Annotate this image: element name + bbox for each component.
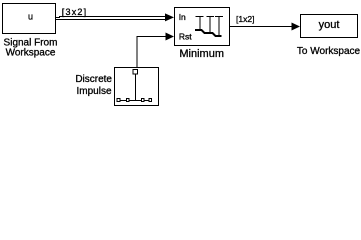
svg-text:Minimum: Minimum	[179, 48, 224, 60]
block To Workspace	[301, 15, 358, 38]
wire u to Minimum (double line, matrix signal)	[55, 17, 166, 20]
svg-text:u: u	[28, 12, 33, 22]
block Signal From Workspace	[3, 4, 56, 34]
block Minimum	[175, 8, 230, 46]
svg-text:yout: yout	[319, 19, 340, 31]
icon minimum staircase stems	[195, 16, 223, 36]
icon discrete impulse stem plot	[117, 70, 152, 102]
arrowhead into yout	[292, 23, 301, 31]
wire Minimum to yout	[230, 26, 292, 28]
svg-text:Impulse: Impulse	[76, 86, 111, 97]
label Signal From Workspace	[4, 38, 58, 59]
block Discrete Impulse	[115, 68, 159, 106]
label Discrete Impulse	[75, 74, 112, 97]
svg-text:[1x2]: [1x2]	[236, 14, 254, 24]
svg-text:To Workspace: To Workspace	[297, 46, 361, 57]
arrowhead into Rst port	[166, 33, 175, 41]
svg-text:Workspace: Workspace	[6, 48, 56, 59]
svg-text:Discrete: Discrete	[75, 74, 112, 85]
svg-text:Rst: Rst	[179, 31, 192, 41]
arrowhead into In port	[165, 13, 174, 21]
svg-text:[3x2]: [3x2]	[62, 7, 88, 17]
svg-text:In: In	[179, 12, 186, 22]
wire Discrete Impulse to Rst	[137, 37, 166, 68]
